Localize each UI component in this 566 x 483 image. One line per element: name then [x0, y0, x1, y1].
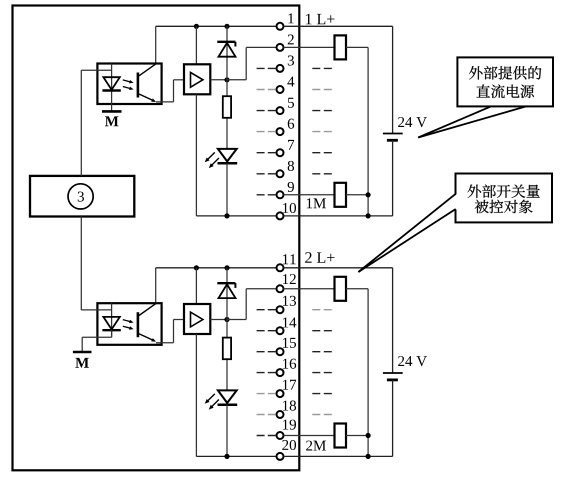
value label 24 V ch2 — [398, 356, 427, 366]
load (controlled object) at terminal 19 — [335, 424, 347, 448]
clamp diode VD2 — [217, 283, 235, 319]
wire optocoupler U1 emitter to amplifier input — [156, 80, 184, 102]
amplifier A2 triangle — [191, 312, 203, 327]
junction node on rail ch1 at amplifier feed — [194, 24, 199, 65]
net label 2 L+ — [305, 252, 334, 263]
indicator LED VL1 — [218, 149, 238, 216]
wire from interface circuit to optocoupler U2 LED anode — [81, 309, 111, 311]
resistor R2 — [223, 320, 231, 391]
terminal 7 circle — [277, 149, 284, 156]
terminal 6 circle — [277, 128, 284, 135]
terminal 9 circle — [277, 191, 284, 198]
junction node on M rail ch1 — [224, 213, 229, 218]
pin number 20 — [282, 440, 296, 450]
pin number 1 — [288, 13, 293, 23]
indicator LED VL2 — [218, 390, 238, 456]
junction M bus to 1M wire — [366, 213, 371, 218]
wire load to M bus ch2 — [346, 289, 368, 457]
wire interface box to optocoupler U2 — [80, 217, 82, 311]
dashed stub left of terminal 13 — [257, 309, 276, 311]
battery 24V ch1 positive plate — [383, 133, 403, 135]
wire 1 L+ internal supply rail ch1 — [156, 26, 277, 63]
amplifier A2 box — [184, 304, 210, 334]
junction node on rail ch2 at diode feed — [224, 265, 229, 283]
junction node on M rail ch2 — [224, 454, 229, 459]
optocoupler U1 box — [97, 64, 161, 105]
wire load 9 to M bus ch1 — [346, 194, 368, 196]
dashed stub right of terminal 8 — [312, 173, 332, 175]
pin number 18 — [283, 401, 296, 411]
wire M return rail ch2 — [196, 455, 276, 457]
pin number 6 — [288, 119, 294, 129]
dashed stub right of terminal 14 — [312, 330, 332, 332]
terminal 12 circle — [277, 285, 284, 292]
optocoupler U2 LED — [102, 303, 120, 337]
optocoupler U2 phototransistor — [138, 304, 156, 342]
wire amplifier A1 return to M rail — [195, 94, 197, 216]
wire optocoupler U2 emitter to amplifier input — [156, 320, 184, 343]
indicator LED VL2 emission arrows — [205, 394, 219, 410]
optocoupler U1 LED — [102, 64, 120, 112]
terminal 16 circle — [277, 369, 284, 376]
wire battery negative to 2M ch2 — [283, 380, 392, 457]
callout box: external DC power supply — [457, 57, 553, 106]
wire M return rail ch1 — [196, 215, 276, 217]
junction load 9 on M bus — [366, 192, 371, 197]
load (controlled object) at terminal 2 — [335, 35, 347, 59]
pin number 3 — [288, 55, 294, 65]
dashed stub right of terminal 5 — [312, 110, 332, 112]
dashed stub right of terminal 17 — [312, 393, 332, 395]
wire 2 L+ external supply line — [283, 268, 392, 373]
pin number 8 — [288, 161, 294, 171]
wire node to output terminal 2 — [227, 47, 277, 79]
wire terminal 19 to load — [283, 435, 334, 437]
terminal 17 circle — [277, 390, 284, 397]
interface circuit box (3) — [30, 176, 134, 217]
clamp diode VD1 — [217, 42, 235, 80]
dashed stub right of terminal 15 — [312, 351, 332, 353]
optocoupler U1 phototransistor — [138, 64, 156, 102]
dashed stub left of terminal 6 — [257, 131, 276, 133]
pin number 9 — [288, 182, 294, 192]
callout 1 pointer to 24V supply — [418, 106, 526, 137]
wire amplifier A2 return to M rail — [195, 334, 197, 456]
terminal 13 circle — [277, 306, 284, 313]
wire 1 L+ external supply line — [283, 26, 392, 133]
circled 3 symbol — [68, 184, 93, 209]
ground M (channel 1 internal common) — [102, 111, 122, 126]
battery 24V ch1 negative plate — [387, 139, 398, 142]
dashed stub left of terminal 14 — [257, 330, 276, 332]
wire amplifier A1 output to node — [210, 79, 227, 81]
wire terminal 9 to load — [283, 194, 334, 196]
terminal 15 circle — [277, 348, 284, 355]
dashed stub left of terminal 4 — [257, 89, 276, 91]
pin number 2 — [288, 34, 294, 44]
dashed stub right of terminal 4 — [312, 89, 332, 91]
amplifier A1 triangle — [191, 72, 203, 87]
pin number 7 — [288, 140, 294, 150]
load (controlled object) at terminal 9 — [335, 183, 347, 207]
terminal 4 circle — [277, 86, 284, 93]
pin number 11 — [283, 254, 296, 264]
pin number 12 — [283, 274, 296, 284]
net label 1 L+ — [306, 14, 335, 25]
callout box: external switching controlled object — [456, 174, 553, 223]
pin number 15 — [283, 338, 296, 348]
dashed stub left of terminal 7 — [257, 152, 276, 154]
dashed stub left of terminal 19 — [257, 435, 276, 437]
battery 24V ch2 positive plate — [383, 372, 403, 374]
terminal 2 circle — [277, 44, 284, 51]
wire load to M bus ch1 — [346, 47, 368, 216]
dashed stub right of terminal 16 — [312, 372, 332, 374]
dashed stub right of terminal 6 — [312, 131, 332, 133]
junction load 19 on M bus — [366, 433, 371, 438]
value label 24 V ch1 — [398, 117, 427, 127]
pin number 4 — [287, 77, 294, 87]
pin number 14 — [283, 317, 296, 327]
wire interface box to optocoupler U1 — [80, 70, 82, 176]
terminal 11 circle — [277, 264, 284, 271]
PLC output module outer enclosure box — [13, 6, 300, 471]
wire terminal 12 to load — [283, 288, 334, 290]
indicator LED VL1 emission arrows — [205, 152, 219, 168]
optocoupler U1 light arrows — [123, 80, 134, 90]
optocoupler U2 box — [97, 303, 161, 345]
dashed stub right of terminal 13 — [312, 309, 332, 311]
dashed stub right of terminal 18 — [312, 414, 332, 416]
dashed stub right of terminal 3 — [312, 67, 332, 69]
pin number 17 — [283, 380, 296, 390]
net label 1M — [307, 198, 326, 208]
wire terminal 2 to load — [283, 46, 334, 48]
ground M (channel 2 internal common) — [73, 352, 92, 368]
wire battery negative to 1M ch1 — [283, 140, 392, 216]
terminal 10 circle — [277, 212, 284, 219]
terminal 8 circle — [277, 170, 284, 177]
pin number 10 — [283, 203, 296, 213]
wire 2 L+ internal supply rail ch2 — [156, 268, 277, 303]
dashed stub left of terminal 8 — [257, 173, 276, 175]
wire amplifier A2 output to node — [210, 319, 227, 321]
junction node on rail ch1 at diode feed — [224, 24, 229, 42]
dashed stub left of terminal 18 — [257, 414, 276, 416]
wire node to output terminal 12 — [227, 289, 277, 320]
dashed stub left of terminal 9 — [257, 194, 276, 196]
terminal 18 circle — [277, 411, 284, 418]
junction M bus to 2M wire — [366, 454, 371, 459]
net label 2M — [306, 441, 326, 451]
pin number 5 — [288, 98, 294, 108]
optocoupler U2 light arrows — [123, 320, 134, 330]
dashed stub left of terminal 17 — [257, 393, 276, 395]
pin number 16 — [283, 359, 296, 369]
dashed stub left of terminal 15 — [257, 351, 276, 353]
terminal 1 circle — [277, 23, 284, 30]
pin number 13 — [283, 296, 296, 306]
dashed stub right of terminal 7 — [312, 152, 332, 154]
dashed stub left of terminal 5 — [257, 110, 276, 112]
pin number 19 — [283, 420, 296, 430]
load (controlled object) at terminal 12 — [335, 277, 347, 301]
wire optocoupler U2 LED cathode to M — [82, 330, 111, 351]
dashed stub left of terminal 16 — [257, 372, 276, 374]
resistor R1 — [223, 80, 231, 149]
terminal 19 circle — [277, 432, 284, 439]
callout 2 pointer to external load circuit — [358, 194, 457, 272]
wire load 19 to M bus ch2 — [346, 435, 368, 437]
terminal 3 circle — [277, 65, 284, 72]
junction node on rail ch2 at amplifier feed — [194, 265, 199, 304]
amplifier A1 box — [184, 64, 210, 94]
dashed stub left of terminal 3 — [257, 67, 276, 69]
node output ch1 — [224, 77, 229, 82]
node output ch2 — [224, 317, 229, 322]
battery 24V ch2 negative plate — [387, 378, 398, 381]
terminal 5 circle — [277, 107, 284, 114]
terminal 20 circle — [277, 453, 284, 460]
wire from interface circuit to optocoupler U1 LED anode — [81, 69, 111, 71]
terminal 14 circle — [277, 327, 284, 334]
